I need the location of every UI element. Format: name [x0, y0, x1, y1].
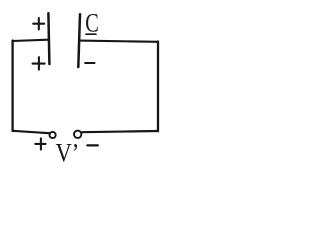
label C underline [86, 33, 96, 35]
wire left edge [11, 41, 13, 132]
capacitor C right plate [78, 14, 80, 67]
capacitor C left plate [48, 13, 49, 64]
svg-text:C: C [85, 9, 99, 38]
plus sign top plate [33, 18, 44, 30]
terminal circle right [74, 131, 81, 138]
svg-text:V’: V’ [56, 139, 80, 168]
plus sign lower left plate [33, 57, 45, 69]
wire top-right segment [80, 41, 159, 42]
minus sign source [87, 144, 97, 146]
wire bottom-right segment [82, 131, 158, 132]
minus sign right plate [85, 62, 94, 64]
wire right edge [157, 42, 159, 132]
wire top-left segment [13, 40, 49, 41]
terminal circle left [50, 132, 56, 138]
wire bottom-left segment [13, 131, 50, 133]
plus sign source [35, 138, 45, 149]
